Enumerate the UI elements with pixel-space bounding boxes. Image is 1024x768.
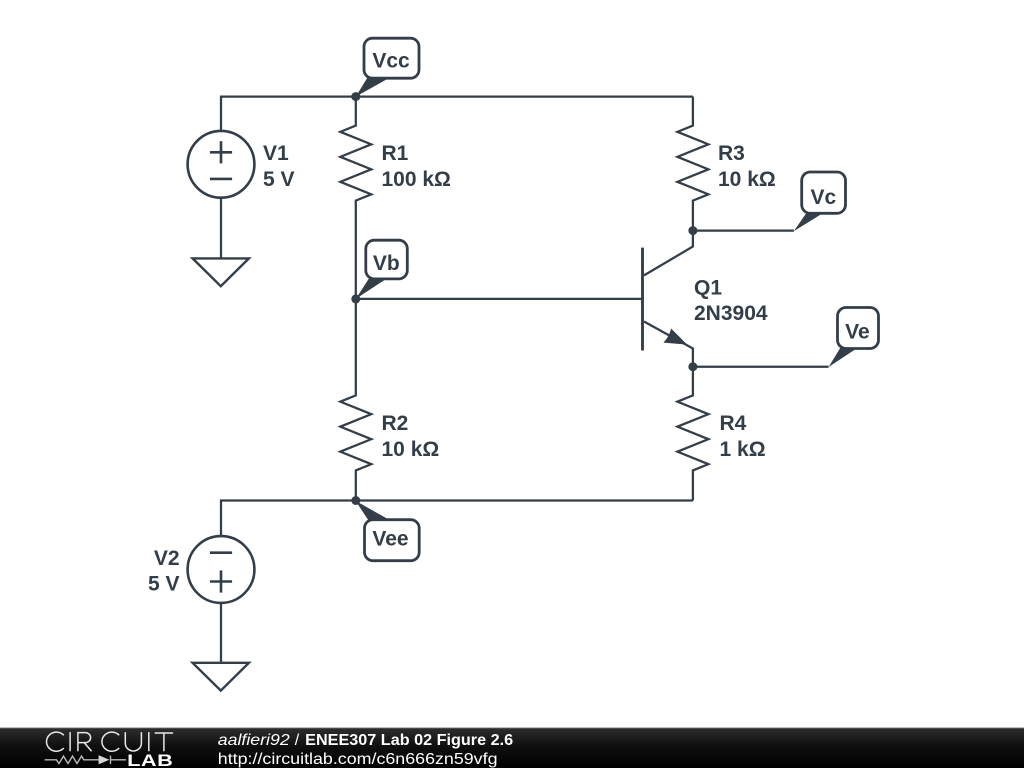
wire Vc tap <box>693 229 794 231</box>
net flag Vcc <box>356 38 419 96</box>
svg-text:Vb: Vb <box>373 252 400 275</box>
svg-text:5 V: 5 V <box>263 168 295 191</box>
svg-text:Q1: Q1 <box>694 277 722 300</box>
net flag Vee <box>356 501 420 561</box>
svg-text:V1: V1 <box>263 142 289 165</box>
svg-text:Vee: Vee <box>372 528 408 551</box>
wire Ve tap <box>693 366 829 368</box>
wire top rail <box>221 97 693 131</box>
resistor R1 <box>340 97 371 299</box>
svg-text:R2: R2 <box>382 412 409 435</box>
net flag Vb <box>356 240 408 299</box>
resistor R4 <box>677 367 708 501</box>
svg-text:R3: R3 <box>718 142 745 165</box>
svg-text:10 kΩ: 10 kΩ <box>718 168 776 191</box>
svg-text:Ve: Ve <box>845 320 870 343</box>
svg-text:aalfieri92: aalfieri92 <box>218 732 290 749</box>
svg-text:10 kΩ: 10 kΩ <box>382 438 440 461</box>
svg-text:Vc: Vc <box>810 186 836 209</box>
ground (below V2) <box>193 663 249 691</box>
CircuitLab logo CIRCUIT (thin stroke letters) <box>47 732 174 751</box>
svg-text:100 kΩ: 100 kΩ <box>382 168 451 191</box>
wire V1 bottom lead <box>220 198 222 259</box>
node Vee junction dot <box>351 496 360 505</box>
svg-text:/: / <box>295 732 300 749</box>
node Vc junction dot <box>688 226 697 235</box>
CircuitLab logo resistor-diode symbol <box>45 756 126 764</box>
node Vb junction dot <box>351 294 360 303</box>
svg-text:ENEE307 Lab 02 Figure 2.6: ENEE307 Lab 02 Figure 2.6 <box>305 732 513 749</box>
net flag Vc <box>794 172 846 231</box>
net flag Ve <box>829 308 879 368</box>
resistor R3 <box>677 97 708 231</box>
svg-text:LAB: LAB <box>127 751 173 768</box>
voltage source V2 <box>188 536 255 603</box>
svg-text:5 V: 5 V <box>148 573 180 596</box>
wire base <box>356 298 643 300</box>
Q1 emitter arrow <box>663 329 687 345</box>
footer bar <box>0 728 1024 768</box>
wire V2 bottom lead <box>220 603 222 663</box>
svg-text:Vcc: Vcc <box>372 50 410 73</box>
transistor Q1 <box>643 231 693 367</box>
svg-text:R4: R4 <box>720 412 747 435</box>
svg-text:R1: R1 <box>382 142 409 165</box>
wire bottom rail <box>221 501 693 536</box>
ground (below V1) <box>193 258 249 286</box>
voltage source V1 <box>188 131 255 198</box>
node Ve junction dot <box>688 362 697 371</box>
svg-text:2N3904: 2N3904 <box>694 302 768 325</box>
resistor R2 <box>340 299 371 501</box>
svg-text:http://circuitlab.com/c6n666zn: http://circuitlab.com/c6n666zn59vfg <box>218 751 498 768</box>
node Vcc junction dot <box>351 92 360 101</box>
svg-text:V2: V2 <box>154 547 180 570</box>
svg-text:1 kΩ: 1 kΩ <box>720 438 766 461</box>
